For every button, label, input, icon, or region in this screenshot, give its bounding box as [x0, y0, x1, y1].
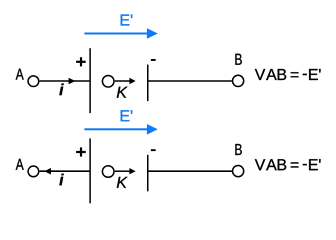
- node A label (top): [16, 69, 24, 80]
- positive plate (top): [89, 48, 91, 113]
- polarity sign + (top): [76, 57, 86, 66]
- label i (top): [59, 84, 63, 96]
- node B label (top): [235, 54, 241, 65]
- equation VAB=-E' (bottom): [255, 159, 321, 170]
- switch K arrow (bottom): [115, 168, 136, 174]
- wire negative plate to B (bottom): [148, 170, 232, 172]
- switch K circle (bottom): [102, 166, 114, 178]
- negative plate (bottom): [147, 155, 149, 192]
- negative plate (top): [147, 65, 149, 102]
- terminal circle A (top): [28, 76, 39, 87]
- positive plate (bottom): [89, 138, 91, 203]
- wire A to positive plate (bottom): [40, 170, 90, 172]
- polarity sign - (top): [151, 59, 156, 61]
- polarity sign - (bottom): [151, 149, 156, 151]
- label K (bottom): [117, 177, 128, 188]
- field arrow E' (top): [84, 28, 157, 39]
- terminal circle A (bottom): [28, 166, 39, 177]
- current arrowhead, pointing left (bottom): [44, 168, 51, 175]
- switch K arrow (top): [115, 78, 136, 84]
- polarity sign + (bottom): [76, 147, 86, 156]
- node B label (bottom): [235, 144, 241, 155]
- wire A to positive plate (top): [40, 80, 90, 82]
- label E' (top): [121, 15, 133, 26]
- node A label (bottom): [16, 159, 24, 170]
- field arrow E' (bottom): [84, 124, 157, 135]
- equation VAB=-E' (top): [255, 69, 321, 80]
- terminal circle B (top): [233, 75, 244, 86]
- wire negative plate to B (top): [148, 80, 232, 82]
- switch K circle (top): [102, 76, 114, 88]
- label K (top): [117, 87, 128, 98]
- current arrowhead, pointing right (top): [69, 78, 76, 85]
- terminal circle B (bottom): [233, 166, 244, 177]
- label i (bottom): [59, 174, 63, 186]
- label E' (bottom): [121, 110, 133, 121]
